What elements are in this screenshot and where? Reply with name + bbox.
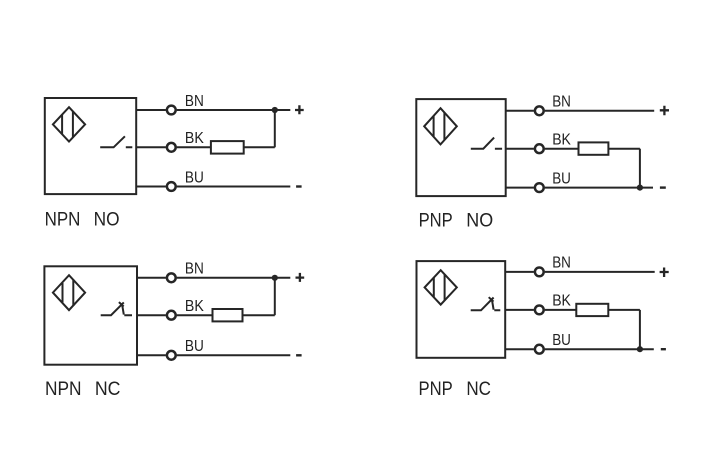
switch NC contact S4 <box>471 297 501 310</box>
terminal BU (circle) <box>167 351 176 360</box>
terminal BK (circle) <box>167 143 176 152</box>
wire BU from box to terminal <box>137 354 166 356</box>
terminal BN (circle) <box>167 106 176 115</box>
sensor symbol inner chord 1 <box>433 278 435 298</box>
svg-text:BU: BU <box>185 338 204 355</box>
terminal BU (circle) <box>535 345 544 354</box>
sensor box U2 <box>416 99 505 196</box>
wire BN terminal to + <box>177 109 291 111</box>
minus supply symbol <box>296 185 302 187</box>
sensor symbol diamond U2 <box>424 108 457 144</box>
minus supply symbol <box>296 354 302 356</box>
sensor symbol inner chord 2 <box>443 113 445 141</box>
wire BU from box to terminal <box>505 348 534 350</box>
terminal BN (circle) <box>535 268 544 277</box>
resistor load RL (PNP NO) <box>579 142 609 154</box>
svg-text:NPN: NPN <box>45 209 81 230</box>
svg-text:NO: NO <box>466 210 493 231</box>
sensor symbol diamond U4 <box>425 270 457 304</box>
junction node on BU <box>637 346 643 352</box>
wire BN from box to terminal <box>137 277 166 279</box>
terminal BK (circle) <box>535 306 544 315</box>
wire BN terminal to + <box>545 271 655 273</box>
wire BK terminal to load <box>177 314 213 316</box>
wire junction down to load <box>274 110 276 147</box>
wire BK from box to terminal <box>136 146 166 148</box>
svg-text:NO: NO <box>94 209 120 230</box>
sensor symbol inner chord 1 <box>61 115 63 135</box>
switch NO contact S2 <box>471 138 502 149</box>
wire BK terminal to load <box>177 146 211 148</box>
wire BN from box to terminal <box>506 110 534 112</box>
junction node on BN <box>272 275 278 281</box>
svg-text:PNP: PNP <box>419 210 453 231</box>
svg-text:BK: BK <box>185 298 204 315</box>
sensor box U3 <box>44 266 137 364</box>
terminal BN (circle) <box>535 106 544 115</box>
wire BN from box to terminal <box>505 271 534 273</box>
wire BK from box to terminal <box>505 309 534 311</box>
wire BK from box to terminal <box>506 148 534 150</box>
terminal BU (circle) <box>535 183 544 192</box>
svg-text:NPN: NPN <box>45 379 82 400</box>
wire BN from box to terminal <box>136 109 166 111</box>
wire BK terminal to load <box>545 148 579 150</box>
sensor symbol inner chord 1 <box>433 116 435 137</box>
junction node on BU <box>637 185 643 191</box>
svg-text:NC: NC <box>466 379 491 400</box>
svg-text:BK: BK <box>185 130 204 147</box>
wire BN terminal to + <box>545 110 655 112</box>
terminal BU (circle) <box>167 182 176 191</box>
wire BU terminal to - <box>545 348 654 350</box>
minus supply symbol <box>661 348 666 350</box>
wire BN terminal to + <box>177 277 291 279</box>
svg-text:BU: BU <box>185 169 204 186</box>
junction node on BN <box>272 107 278 113</box>
wire BU terminal to - <box>545 187 653 189</box>
wire load to corner <box>608 309 640 311</box>
svg-text:PNP: PNP <box>419 379 453 400</box>
wire corner down to BU junction <box>639 310 641 349</box>
svg-text:BN: BN <box>552 255 571 272</box>
sensor box U1 <box>45 98 136 194</box>
wire BU from box to terminal <box>136 186 166 188</box>
svg-text:BN: BN <box>185 93 204 110</box>
terminal BN (circle) <box>167 273 176 282</box>
sensor symbol diamond U1 <box>53 107 85 141</box>
wire BU terminal to - <box>177 186 291 188</box>
wire load right lead <box>243 314 275 316</box>
wire BK terminal to load <box>545 309 577 311</box>
plus supply symbol <box>660 268 669 278</box>
sensor symbol inner chord 1 <box>62 283 64 302</box>
switch NO contact S1 <box>100 136 132 147</box>
plus supply symbol <box>660 106 669 116</box>
wire junction down to load <box>274 278 276 315</box>
svg-text:BU: BU <box>552 332 571 349</box>
sensor symbol diamond U3 <box>53 275 85 310</box>
svg-text:BK: BK <box>552 293 571 310</box>
terminal BK (circle) <box>535 144 544 153</box>
sensor symbol inner chord 2 <box>72 279 74 306</box>
wire BU terminal to - <box>177 354 291 356</box>
terminal BK (circle) <box>167 311 176 320</box>
sensor box U4 <box>417 261 506 358</box>
wire load right lead <box>244 146 275 148</box>
sensor symbol inner chord 2 <box>72 111 74 138</box>
resistor load RL (NPN NO) <box>211 141 244 154</box>
svg-text:NC: NC <box>95 379 121 400</box>
svg-text:BN: BN <box>185 261 204 278</box>
wire BK from box to terminal <box>137 314 166 316</box>
plus supply symbol <box>296 273 305 282</box>
svg-text:BN: BN <box>552 94 571 111</box>
svg-text:BK: BK <box>552 132 571 149</box>
wire load to corner <box>608 148 640 150</box>
switch NC contact S3 <box>101 302 132 315</box>
resistor load RL (PNP NC) <box>576 304 608 316</box>
svg-text:BU: BU <box>552 170 571 187</box>
resistor load RL (NPN NC) <box>213 309 243 321</box>
plus supply symbol <box>295 105 304 114</box>
sensor symbol inner chord 2 <box>444 274 446 301</box>
minus supply symbol <box>660 186 666 188</box>
wire corner down to BU junction <box>639 149 641 188</box>
wire BU from box to terminal <box>506 187 534 189</box>
